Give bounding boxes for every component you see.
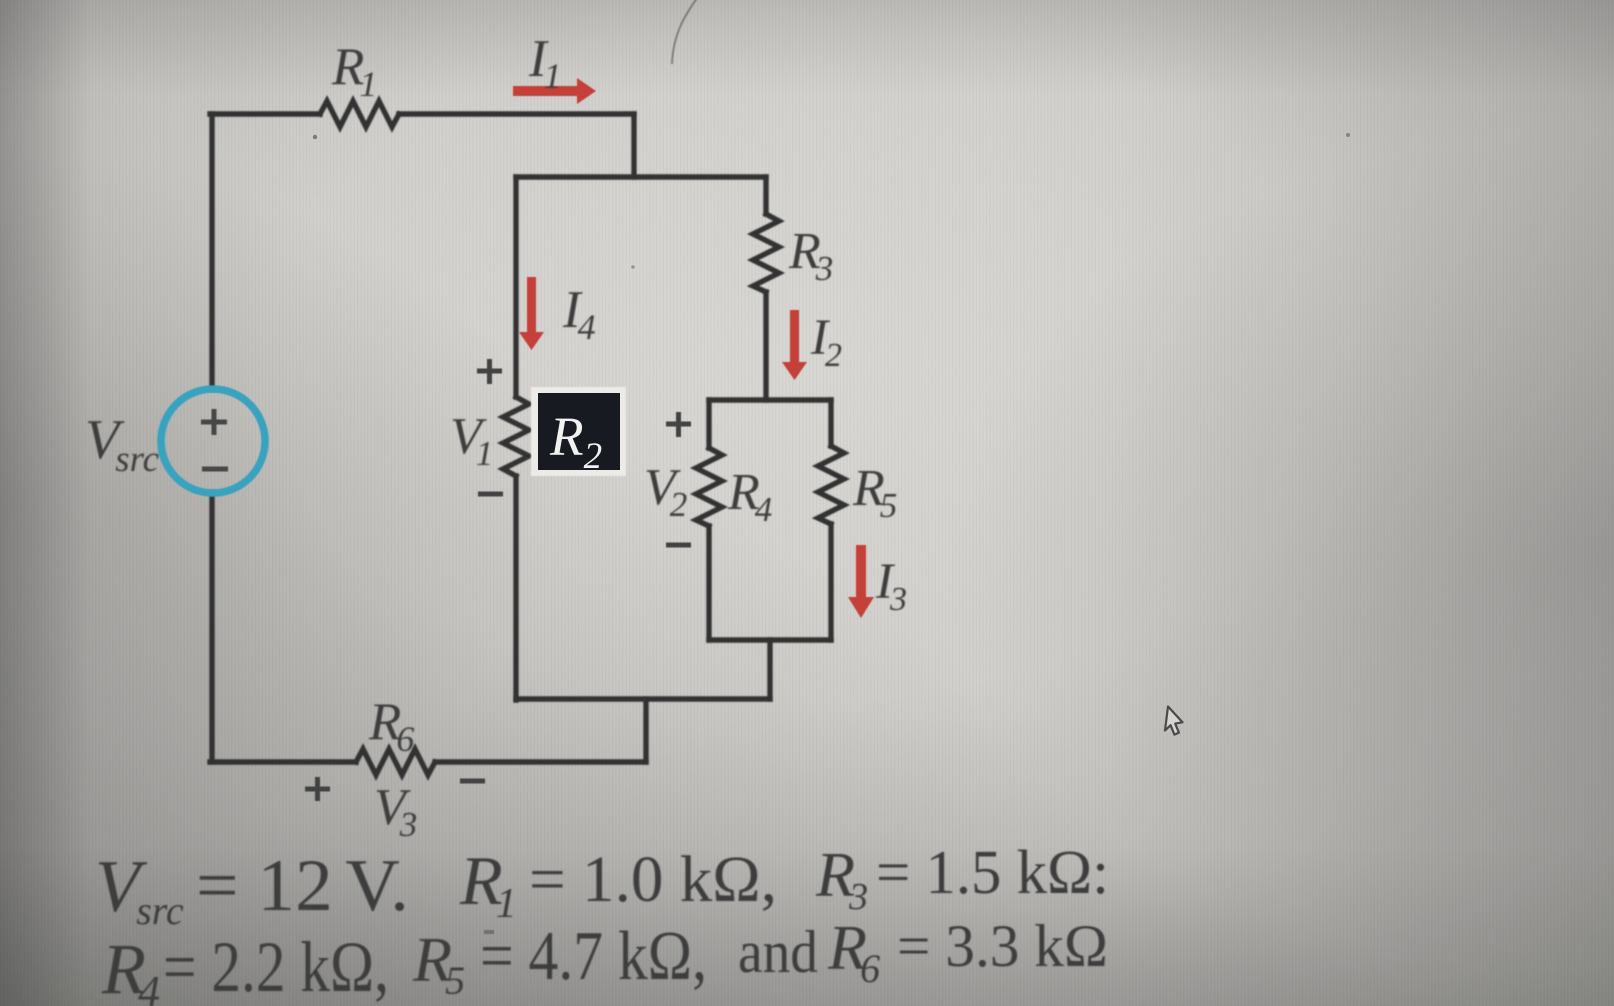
current arrow I3 [848,545,874,618]
wire: inner loop bottom horizontal [516,696,770,701]
current arrow I4 [519,277,544,350]
polarity minus of V2 [666,543,691,548]
speck below R1 wire [313,135,317,139]
voltage source Vsrc (circle) [161,389,265,493]
wire: top-left horizontal from left rail to R1 [210,111,320,116]
resistor R4 (zigzag) [696,448,722,526]
wire: drop from parallel box bottom to inner loop bottom [767,640,772,699]
polarity minus of V1 [478,492,503,497]
wire: R3 branch upper segment [763,177,768,214]
resistor R5 (zigzag) [818,446,844,524]
wire: R4 branch lower lead [706,526,711,640]
svg-text:and: and [738,919,818,985]
polarity plus of V1 [477,369,502,374]
current arrow I2 [782,310,807,380]
wire: R4 branch upper lead [706,400,711,448]
svg-text:= 2.2 kΩ,: = 2.2 kΩ, [163,927,389,1006]
svg-text:= 4.7 kΩ,: = 4.7 kΩ, [480,918,707,995]
R2 value box halo [531,387,626,476]
svg-text:= 1.0 kΩ,: = 1.0 kΩ, [529,843,777,916]
wire: R2 branch lower segment [513,476,518,700]
equation line 1 [95,839,1109,933]
polarity plus of V2 [666,422,691,427]
resistor R6 (zigzag) [356,749,435,775]
R2 value box [538,393,620,470]
wire: left rail upper segment [209,114,214,389]
resistor R1 [320,101,399,127]
speck near inner loop [631,265,635,269]
equation line 2 [101,912,1108,1006]
wire: R5 branch lower lead [828,524,833,640]
resistor R3 (zigzag) [753,214,779,292]
speck right of circuit [1346,133,1350,137]
wire: bottom rail left segment from left rail to R6 [210,759,356,764]
polarity plus of V3 [305,787,330,792]
current arrow I1 [513,78,596,104]
stray hair mark top [672,0,700,64]
mouse cursor [1165,707,1183,735]
wire: top horizontal from R1 to right corner [399,111,634,116]
wire: inner loop top horizontal [516,174,766,179]
wire: R2 branch upper segment [513,177,518,397]
polarity minus of V3 [460,779,485,784]
svg-text:= 1.5 kΩ:: = 1.5 kΩ: [876,839,1109,907]
wire: drop from top wire into inner loop top [631,114,636,177]
svg-text:= 3.3 kΩ: = 3.3 kΩ [897,913,1108,979]
wire: R5 branch upper lead [828,400,833,446]
stray dashed mark under equation R3 [812,916,872,919]
wire: R3 branch lower segment to parallel box [763,292,768,400]
stray mark under equation R1 [484,930,494,934]
wire: bottom rail right segment from R6 to drop [435,759,646,764]
voltage source plus and minus terminals [201,409,228,469]
svg-text:= 12 V.: = 12 V. [196,845,409,927]
wire: drop from inner loop bottom to outer bottom rail [643,699,648,762]
wire: parallel box top horizontal [709,397,831,402]
wire: left rail lower segment [209,493,214,762]
wire: parallel box bottom horizontal [709,637,831,642]
resistor R2 (zigzag) [503,397,529,476]
